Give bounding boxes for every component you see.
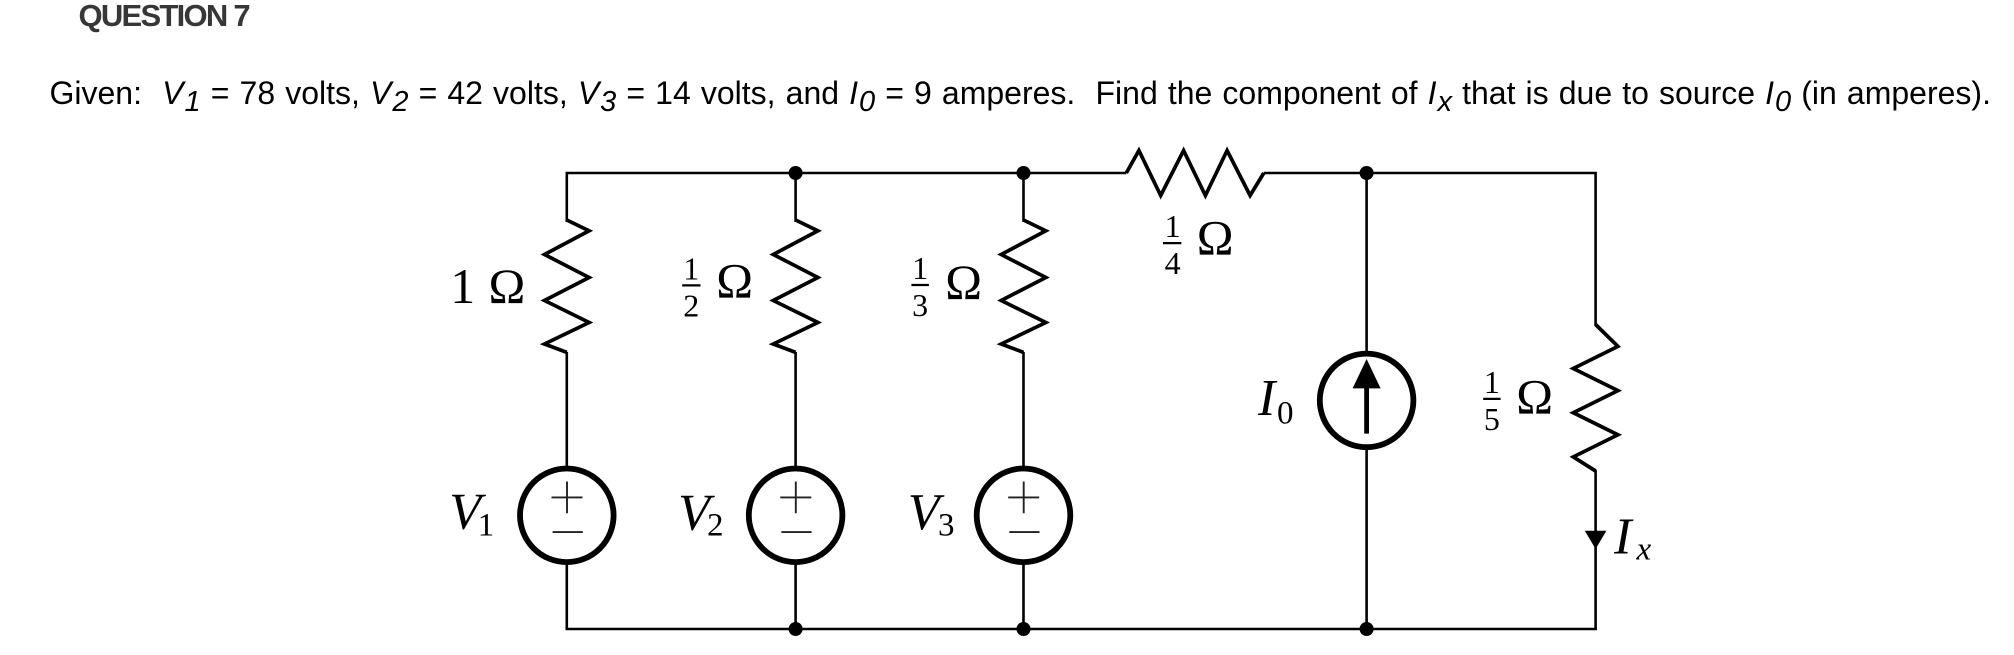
label: V3 xyxy=(908,484,955,544)
svg-text:I: I xyxy=(1257,370,1278,427)
junction node dot (top-branch2) xyxy=(789,166,803,180)
problem statement text xyxy=(50,75,1991,112)
label: 1/5 ohm (R5 value) xyxy=(1483,364,1553,437)
svg-text:1: 1 xyxy=(1165,208,1181,244)
resistor R4 (1/4 ohm, horizontal in top rail) xyxy=(1126,151,1264,196)
heading: QUESTION 7 xyxy=(79,0,249,34)
wire: top rail right + branch5 top xyxy=(1264,173,1596,326)
label: 1/2 ohm (R2 value) xyxy=(682,250,753,323)
svg-text:Ω: Ω xyxy=(716,254,753,309)
voltage source V1 xyxy=(520,469,614,563)
wire: branch4 current-source branch vertical xyxy=(1365,173,1368,629)
label: Ix xyxy=(1613,509,1651,568)
resistor R3 (1/3 ohm) xyxy=(1001,220,1046,352)
svg-text:3: 3 xyxy=(912,287,928,323)
svg-text:Ω: Ω xyxy=(945,255,982,310)
label: 1/4 ohm (R4 value) xyxy=(1163,208,1233,281)
junction node dot (bottom-branch3) xyxy=(1017,622,1031,636)
svg-text:1: 1 xyxy=(1484,364,1500,400)
resistor R1 (1 ohm) xyxy=(545,220,590,352)
junction node dot (bottom-branch2) xyxy=(789,622,803,636)
svg-text:1: 1 xyxy=(683,250,699,286)
svg-text:4: 4 xyxy=(1165,245,1181,281)
arrow Ix (current direction arrowhead) xyxy=(1585,531,1607,549)
svg-text:0: 0 xyxy=(1277,395,1294,431)
label: 1 ohm (R1 value) xyxy=(450,259,525,314)
svg-text:1: 1 xyxy=(912,250,928,286)
current source I0 xyxy=(1320,354,1414,448)
svg-text:5: 5 xyxy=(1484,401,1500,437)
label: 1/3 ohm (R3 value) xyxy=(911,250,982,323)
wire: branch1 top + top rail left xyxy=(567,173,1127,222)
wire: branch3 top segment xyxy=(1022,173,1025,222)
wire: bottom rail xyxy=(566,628,1597,631)
svg-text:x: x xyxy=(1636,531,1652,567)
voltage source V3 xyxy=(977,469,1071,563)
svg-text:I: I xyxy=(1613,509,1634,566)
svg-text:2: 2 xyxy=(707,508,724,544)
resistor R5 (1/5 ohm) xyxy=(1573,325,1618,472)
junction node dot (top-branch4) xyxy=(1360,166,1374,180)
svg-text:3: 3 xyxy=(938,508,955,544)
junction node dot (bottom-branch4) xyxy=(1360,622,1374,636)
wire: branch2 top segment xyxy=(794,173,797,222)
label: V2 xyxy=(678,484,723,543)
label: I0 xyxy=(1257,370,1294,432)
wire: branch3 bottom segment xyxy=(1022,352,1025,629)
svg-text:Ω: Ω xyxy=(489,259,526,314)
svg-text:Ω: Ω xyxy=(1516,369,1553,424)
svg-text:1: 1 xyxy=(478,508,495,544)
voltage source V2 xyxy=(749,469,843,563)
junction node dot (top-branch3) xyxy=(1017,166,1031,180)
resistor R2 (1/2 ohm) xyxy=(773,220,818,352)
svg-text:1: 1 xyxy=(450,259,475,314)
label: V1 xyxy=(449,484,494,544)
wire: branch2 bottom segment xyxy=(794,352,797,629)
wire: branch5 bottom segment xyxy=(1594,470,1597,629)
svg-text:2: 2 xyxy=(683,288,699,324)
wire: branch1 bottom segment xyxy=(565,352,568,629)
svg-text:Ω: Ω xyxy=(1197,211,1234,266)
